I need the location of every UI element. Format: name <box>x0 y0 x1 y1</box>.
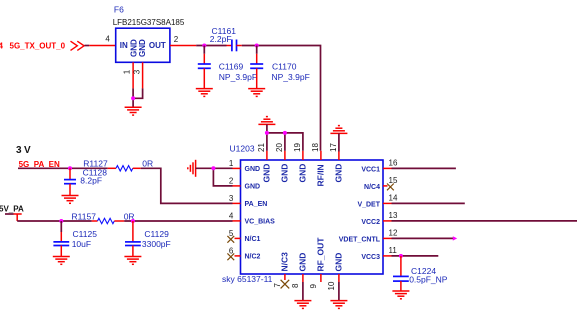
svg-text:2.2pF: 2.2pF <box>210 34 232 44</box>
wire top ground to pins 21,20,19 <box>267 124 303 150</box>
svg-text:7: 7 <box>273 283 282 288</box>
svg-text:8: 8 <box>291 283 300 288</box>
junction at C1128 <box>68 166 72 170</box>
svg-text:3V: 3V <box>16 145 33 156</box>
svg-text:GND: GND <box>333 253 343 272</box>
ground below pin 8 <box>294 301 311 309</box>
wire R1157 to U1203 pin 4 <box>124 220 232 222</box>
svg-text:1: 1 <box>123 69 132 74</box>
wire pin 13 VCC2 <box>392 220 577 222</box>
ground below C1128 <box>62 196 79 204</box>
svg-text:PA_EN: PA_EN <box>245 201 268 208</box>
svg-text:10: 10 <box>327 281 336 290</box>
svg-text:10uF: 10uF <box>72 239 91 249</box>
svg-text:C1169: C1169 <box>219 62 244 72</box>
wire pin 11 VCC3 <box>392 255 439 257</box>
svg-text:20: 20 <box>275 143 284 152</box>
svg-text:V_DET: V_DET <box>357 202 380 209</box>
svg-text:2: 2 <box>174 35 179 44</box>
U1203 right pin stubs <box>383 168 392 256</box>
wire pin 10 to ground <box>338 282 340 301</box>
F6 pin 1 stub <box>123 62 134 88</box>
wire 5G_PA_EN to R1127 <box>18 167 108 169</box>
wire top ground to pin 17 <box>338 133 340 151</box>
pin 15 no-connect X <box>383 184 394 191</box>
capacitor C1169 <box>198 46 257 89</box>
svg-text:1: 1 <box>229 159 234 168</box>
junction at C1170 <box>255 44 259 48</box>
wire F6 pin 2 output <box>170 35 227 45</box>
pin 6 no-connect X <box>227 253 240 260</box>
off-page connector chevron <box>71 41 85 50</box>
wire 5V_PA to R1157 <box>17 220 92 222</box>
wire pin 12 VDET_CNTL <box>392 236 458 240</box>
svg-text:LFB215G37S8A185: LFB215G37S8A185 <box>113 18 185 27</box>
svg-text:GND: GND <box>245 166 261 173</box>
capacitor C1125 <box>53 221 97 257</box>
svg-text:C1170: C1170 <box>272 62 297 72</box>
svg-text:0.5pF_NP: 0.5pF_NP <box>409 275 448 285</box>
svg-text:R1157: R1157 <box>72 212 97 222</box>
svg-text:GND: GND <box>279 164 289 183</box>
resistor R1157 0R <box>72 212 135 224</box>
ground below pin 10 <box>330 301 347 309</box>
svg-text:12: 12 <box>389 229 398 238</box>
wire pin 8 to ground <box>302 282 304 301</box>
wire F6 pins 1,3 to ground <box>133 88 143 107</box>
resistor R1127 0R <box>83 159 153 171</box>
junction pin 20 <box>283 131 287 135</box>
U1203 left pin names <box>245 166 276 261</box>
capacitor C1224 <box>393 256 448 291</box>
svg-text:VC_BIAS: VC_BIAS <box>245 219 276 226</box>
ground below C1224 <box>392 291 409 299</box>
svg-text:VCC1: VCC1 <box>361 167 380 174</box>
pin 7 no-connect X <box>281 274 290 288</box>
svg-text:N/C4: N/C4 <box>364 184 380 191</box>
U1203 bottom pin numbers <box>273 281 336 290</box>
svg-text:NP_3.9pF: NP_3.9pF <box>272 72 310 82</box>
ground left of pin 1 (rotated) <box>188 160 196 177</box>
svg-text:C1125: C1125 <box>73 229 98 239</box>
net label 5G_TX_OUT_0 <box>0 41 66 50</box>
svg-text:3300pF: 3300pF <box>142 239 171 249</box>
svg-text:N/C3: N/C3 <box>279 252 289 272</box>
svg-text:GND: GND <box>261 164 271 183</box>
svg-text:19: 19 <box>293 143 302 152</box>
wire C1161 to corner and down to RF/IN <box>242 46 321 151</box>
svg-text:18: 18 <box>311 143 320 152</box>
capacitor C1161 <box>210 26 242 51</box>
junction at C1169 <box>202 44 206 48</box>
svg-text:4: 4 <box>105 35 110 44</box>
svg-text:VCC3: VCC3 <box>361 254 380 261</box>
wire to F6 pin 4 <box>85 35 116 46</box>
pin 5 no-connect X <box>227 236 240 243</box>
svg-text:NP_3.9pF: NP_3.9pF <box>219 72 257 82</box>
svg-text:VCC2: VCC2 <box>361 219 380 226</box>
svg-text:17: 17 <box>329 143 338 152</box>
ground below C1129 <box>124 257 141 265</box>
ground below C1125 <box>53 257 70 265</box>
svg-text:N/C1: N/C1 <box>245 236 261 243</box>
ground below C1169 <box>196 89 213 97</box>
junction pin 21 <box>265 131 269 135</box>
U1203 top pin names <box>261 164 343 187</box>
U1203 top pin stubs <box>267 151 339 160</box>
junction at C1224 <box>399 254 403 258</box>
junction at C1125 <box>59 219 63 223</box>
svg-text:GND: GND <box>333 164 343 183</box>
svg-text:21: 21 <box>257 143 266 152</box>
net label 5V_PA <box>0 204 24 221</box>
svg-text:16: 16 <box>389 159 398 168</box>
junction F6 ground <box>131 96 135 100</box>
U1203 bottom pin stubs 8,9,10 <box>303 274 339 282</box>
svg-text:GND: GND <box>245 184 261 191</box>
U1203 right pin numbers <box>389 159 398 256</box>
op-amp U1203 body <box>222 144 383 285</box>
svg-text:5G_TX_OUT_0: 5G_TX_OUT_0 <box>10 41 66 50</box>
svg-text:OUT: OUT <box>149 41 166 50</box>
svg-text:2: 2 <box>229 176 234 185</box>
svg-text:IN: IN <box>120 41 128 50</box>
svg-text:GND: GND <box>297 164 307 183</box>
F6 pin 3 stub <box>132 62 142 88</box>
U1203 bottom pin names <box>279 237 343 272</box>
wire R1127 to U1203 pin 3 <box>141 168 233 203</box>
svg-text:11: 11 <box>389 246 398 255</box>
wire pin 16 VCC1 <box>392 167 456 169</box>
svg-text:GND: GND <box>297 253 307 272</box>
svg-text:8.2pF: 8.2pF <box>80 176 102 186</box>
svg-text:5V_PA: 5V_PA <box>0 204 24 213</box>
svg-text:U1203: U1203 <box>230 144 255 154</box>
filter F6 LFB215G37S8A185 <box>113 5 185 63</box>
capacitor C1129 <box>125 221 171 257</box>
junction at C1129 <box>131 219 135 223</box>
svg-text:13: 13 <box>389 211 398 220</box>
capacitor C1170 <box>250 46 310 89</box>
ground above pin 21 (inverted) <box>258 117 275 125</box>
ground above pin 17 (inverted) <box>330 126 347 134</box>
wire pin 14 V_DET <box>392 202 465 204</box>
svg-text:4: 4 <box>229 211 234 220</box>
U1203 left pin stubs 1-4 <box>233 168 241 221</box>
svg-text:3: 3 <box>132 69 141 74</box>
svg-text:RF_OUT: RF_OUT <box>315 237 325 272</box>
U1203 left pin numbers <box>229 159 234 256</box>
svg-text:R1127: R1127 <box>83 159 108 169</box>
wire ground to pins 1,2 <box>196 168 233 186</box>
capacitor C1128 <box>64 167 107 195</box>
svg-text:GND: GND <box>138 39 147 57</box>
svg-text:0R: 0R <box>142 159 153 169</box>
svg-text:RF/IN: RF/IN <box>315 164 325 186</box>
U1203 top pin numbers <box>257 143 338 152</box>
svg-text:VDET_CNTL: VDET_CNTL <box>339 237 381 244</box>
svg-text:14: 14 <box>389 194 398 203</box>
svg-text:F6: F6 <box>114 5 124 15</box>
junction pins 1-2 net <box>211 166 215 170</box>
svg-text:N/C2: N/C2 <box>245 254 261 261</box>
svg-text:3: 3 <box>229 194 234 203</box>
svg-text:9: 9 <box>309 284 318 289</box>
ground below F6 <box>125 107 142 115</box>
ground below C1170 <box>248 89 265 97</box>
svg-text:sky 65137-11: sky 65137-11 <box>222 274 273 284</box>
svg-text:C1129: C1129 <box>144 229 169 239</box>
U1203 right pin names <box>339 167 381 262</box>
